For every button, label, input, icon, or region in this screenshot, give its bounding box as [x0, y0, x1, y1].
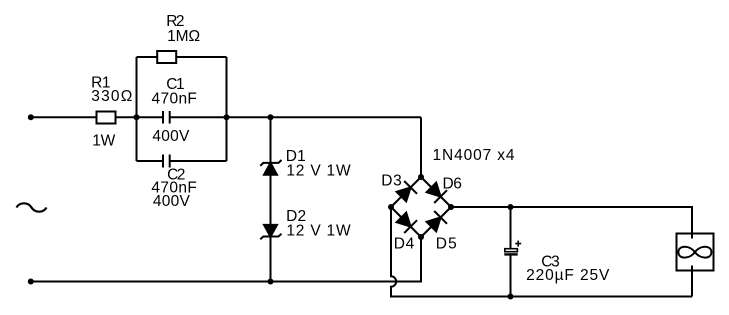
diode D4 triangle [397, 213, 411, 227]
capacitor C3 negative plate [504, 253, 517, 255]
wire C3 top lead [510, 207, 512, 249]
svg-text:1W: 1W [92, 133, 115, 150]
capacitor C1 plate left [162, 111, 164, 124]
load box [677, 234, 714, 271]
wire block right vertical [226, 57, 228, 161]
resistor R2 [157, 51, 176, 63]
wire C2 branch right [170, 160, 227, 162]
junction block left [134, 114, 140, 120]
zener diode D2 cathode bar [260, 234, 281, 240]
svg-text:1N4007 x4: 1N4007 x4 [433, 147, 515, 164]
junction C3 bottom [508, 294, 514, 300]
diode D4 cathode bar [404, 220, 417, 233]
svg-text:D6: D6 [443, 175, 462, 192]
svg-text:D4: D4 [394, 235, 415, 252]
wire bridge feed vertical [420, 117, 422, 177]
node bridge bottom [418, 234, 424, 240]
wire load bottom lead [691, 266, 693, 297]
AC source tilde [17, 203, 47, 211]
diode D6 cathode bar [434, 190, 447, 203]
zener diode D1 triangle [264, 163, 277, 175]
wire top rail left (terminal to R1) [31, 116, 97, 118]
wire bridge arm left-bottom [391, 207, 421, 237]
wire bottom AC rail [31, 237, 421, 282]
node bridge top [418, 174, 424, 180]
svg-text:1MΩ: 1MΩ [167, 28, 200, 45]
diode D5 cathode bar [434, 211, 447, 224]
svg-text:400V: 400V [152, 128, 190, 145]
svg-text:D3: D3 [381, 172, 401, 189]
zener diode D2 triangle [264, 225, 277, 237]
zener diode D1 cathode bar [260, 160, 281, 166]
diode D6 triangle [427, 183, 441, 197]
wire C2 branch left [137, 160, 164, 162]
wire bridge arm bottom-right [421, 207, 451, 237]
capacitor C3 polarity plus sign [515, 241, 521, 247]
wire block left vertical [136, 57, 138, 161]
load lamp infinity symbol [678, 247, 711, 258]
wire R2 branch right [176, 56, 226, 58]
node bridge right [448, 204, 454, 210]
capacitor C2 plate left [162, 155, 164, 168]
wire DC minus from bridge left node with hop [391, 207, 692, 297]
diode D3 cathode bar [404, 181, 417, 194]
capacitor C1 plate right [169, 111, 171, 124]
diode D5 triangle [427, 217, 441, 231]
svg-text:330Ω: 330Ω [91, 88, 132, 105]
diode D3 triangle [397, 187, 411, 201]
svg-text:470nF: 470nF [152, 90, 197, 107]
wire bridge arm left-top [391, 177, 421, 207]
junction zener branch top [268, 114, 274, 120]
junction C3 top [508, 204, 514, 210]
svg-text:400V: 400V [153, 193, 191, 210]
svg-text:220µF 25V: 220µF 25V [526, 267, 610, 284]
wire top rail C1 to bridge corner [170, 116, 421, 118]
terminal node bottom-left [28, 279, 34, 285]
capacitor C3 positive plate [505, 249, 518, 252]
wire bridge arm top-right [421, 177, 451, 207]
wire zener branch vertical [270, 117, 272, 281]
node bridge left [388, 204, 394, 210]
terminal node top-left [28, 114, 34, 120]
wire R2 branch left [137, 56, 158, 58]
svg-text:12 V 1W: 12 V 1W [286, 222, 351, 239]
wire DC plus rail [451, 207, 692, 239]
capacitor C2 plate right [169, 155, 171, 168]
junction block right [224, 114, 230, 120]
junction zener branch bottom [268, 279, 274, 285]
svg-text:D5: D5 [436, 235, 457, 252]
resistor R1 [97, 112, 116, 124]
svg-text:12 V 1W: 12 V 1W [286, 162, 351, 179]
wire C3 bottom lead [510, 256, 512, 297]
wire top rail R1 to C1 [116, 116, 164, 118]
